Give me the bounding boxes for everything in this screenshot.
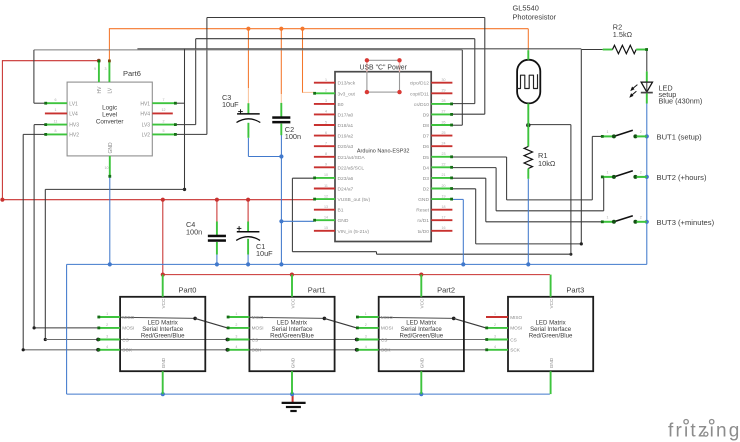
svg-text:1: 1: [494, 312, 496, 316]
svg-text:7: 7: [163, 98, 165, 102]
svg-text:1: 1: [607, 171, 609, 175]
svg-text:2: 2: [163, 119, 165, 123]
svg-text:MOSI: MOSI: [381, 326, 393, 331]
svg-text:VIN_in (5-21v): VIN_in (5-21v): [338, 229, 370, 235]
svg-text:29: 29: [442, 89, 446, 93]
svg-text:VCC: VCC: [549, 298, 554, 309]
svg-text:3: 3: [105, 67, 107, 71]
svg-text:4: 4: [235, 345, 237, 349]
svg-text:SCK: SCK: [122, 348, 133, 353]
svg-text:VUSB_out (5v): VUSB_out (5v): [338, 197, 371, 203]
svg-text:2: 2: [365, 323, 367, 327]
svg-text:21: 21: [442, 173, 446, 177]
svg-text:D22/a5/SCL: D22/a5/SCL: [338, 165, 365, 171]
svg-text:1: 1: [607, 130, 609, 134]
svg-text:1: 1: [55, 108, 57, 112]
svg-text:1: 1: [325, 78, 327, 82]
svg-text:1: 1: [607, 216, 609, 220]
svg-text:GL5540: GL5540: [513, 4, 539, 13]
svg-text:Arduino Nano-ESP32: Arduino Nano-ESP32: [357, 148, 410, 154]
svg-text:Part6: Part6: [123, 69, 141, 78]
svg-text:2: 2: [640, 216, 642, 220]
svg-text:2: 2: [235, 323, 237, 327]
svg-text:D6: D6: [423, 144, 430, 150]
svg-text:11: 11: [54, 119, 58, 123]
svg-text:D7: D7: [423, 134, 430, 140]
svg-text:3: 3: [235, 335, 237, 339]
svg-text:Blue (430nm): Blue (430nm): [659, 97, 703, 106]
svg-text:BUT2 (+hours): BUT2 (+hours): [657, 173, 707, 182]
svg-text:8: 8: [55, 129, 57, 133]
svg-text:2: 2: [640, 171, 642, 175]
svg-text:BUT1 (setup): BUT1 (setup): [657, 133, 703, 142]
svg-text:CS: CS: [122, 337, 129, 342]
svg-text:B1: B1: [338, 208, 344, 214]
svg-text:SCK: SCK: [252, 348, 263, 353]
svg-text:GND: GND: [161, 357, 166, 368]
svg-text:MISO: MISO: [122, 315, 134, 320]
svg-text:10: 10: [105, 166, 109, 170]
svg-text:D9: D9: [423, 112, 430, 118]
svg-text:20: 20: [442, 184, 446, 188]
svg-text:D24/a7: D24/a7: [338, 187, 354, 193]
svg-text:cs/D10: cs/D10: [414, 102, 430, 108]
svg-text:GND: GND: [418, 197, 429, 203]
svg-text:D17/a0: D17/a0: [338, 112, 354, 118]
svg-text:1: 1: [365, 312, 367, 316]
svg-text:100n: 100n: [285, 132, 301, 141]
svg-text:MISO: MISO: [510, 315, 522, 320]
svg-text:HV: HV: [97, 86, 103, 94]
svg-text:MOSI: MOSI: [252, 326, 264, 331]
svg-text:7: 7: [325, 142, 327, 146]
svg-text:24: 24: [442, 142, 446, 146]
svg-text:1: 1: [106, 312, 108, 316]
svg-text:SCK: SCK: [510, 348, 521, 353]
svg-text:19: 19: [442, 194, 446, 198]
svg-text:3: 3: [325, 99, 327, 103]
svg-text:4: 4: [365, 345, 367, 349]
svg-text:5: 5: [163, 129, 165, 133]
svg-text:HV2: HV2: [69, 133, 79, 139]
svg-text:25: 25: [442, 131, 446, 135]
svg-text:3v3_out: 3v3_out: [338, 91, 356, 97]
svg-text:Red/Green/Blue: Red/Green/Blue: [270, 333, 314, 340]
svg-text:Red/Green/Blue: Red/Green/Blue: [529, 333, 573, 340]
svg-text:Reset: Reset: [416, 208, 429, 214]
svg-text:10uF: 10uF: [256, 249, 273, 258]
svg-text:Part0: Part0: [179, 286, 197, 295]
svg-text:GND: GND: [338, 218, 349, 224]
svg-text:D19/a2: D19/a2: [338, 134, 354, 140]
svg-text:Photoresistor: Photoresistor: [513, 13, 557, 22]
svg-text:100n: 100n: [186, 227, 202, 236]
svg-text:Part2: Part2: [437, 286, 455, 295]
svg-text:22: 22: [442, 163, 446, 167]
svg-text:Part1: Part1: [308, 286, 326, 295]
svg-text:8: 8: [325, 152, 327, 156]
svg-text:D3: D3: [423, 176, 430, 182]
svg-text:MOSI: MOSI: [510, 326, 522, 331]
svg-text:Part3: Part3: [566, 286, 584, 295]
svg-text:SCK: SCK: [381, 348, 392, 353]
svg-text:1.5kΩ: 1.5kΩ: [613, 30, 633, 39]
svg-text:MISO: MISO: [252, 315, 264, 320]
svg-text:D23/a6: D23/a6: [338, 176, 354, 182]
svg-text:5: 5: [325, 120, 327, 124]
svg-text:USB "C" Power: USB "C" Power: [359, 64, 407, 71]
svg-text:CS: CS: [252, 337, 259, 342]
svg-text:14: 14: [324, 216, 328, 220]
svg-text:GND: GND: [290, 357, 295, 368]
svg-text:1: 1: [235, 312, 237, 316]
svg-text:2: 2: [325, 89, 327, 93]
svg-text:fritzing: fritzing: [668, 421, 740, 442]
svg-text:2: 2: [106, 323, 108, 327]
svg-text:2: 2: [494, 323, 496, 327]
svg-text:D8: D8: [423, 123, 430, 129]
svg-text:4: 4: [494, 345, 496, 349]
svg-text:D21/a4/SDA: D21/a4/SDA: [338, 155, 366, 161]
svg-text:18: 18: [442, 205, 446, 209]
svg-text:10: 10: [324, 173, 328, 177]
svg-text:GND: GND: [549, 357, 554, 368]
svg-text:6: 6: [55, 98, 57, 102]
svg-text:10uF: 10uF: [222, 100, 239, 109]
svg-text:30: 30: [442, 78, 446, 82]
svg-text:12: 12: [324, 194, 328, 198]
svg-text:Red/Green/Blue: Red/Green/Blue: [399, 333, 443, 340]
svg-text:27: 27: [442, 110, 446, 114]
svg-text:Red/Green/Blue: Red/Green/Blue: [141, 333, 185, 340]
svg-text:9: 9: [94, 67, 96, 71]
svg-text:LV3: LV3: [142, 123, 151, 129]
svg-text:Converter: Converter: [96, 119, 124, 126]
svg-text:HV3: HV3: [69, 123, 79, 129]
svg-text:VCC: VCC: [161, 298, 166, 309]
svg-text:D5: D5: [423, 155, 430, 161]
svg-text:LV: LV: [107, 87, 113, 93]
svg-text:4: 4: [325, 110, 327, 114]
svg-text:12: 12: [162, 108, 166, 112]
svg-text:28: 28: [442, 99, 446, 103]
svg-text:cipo/D12: cipo/D12: [410, 81, 430, 87]
svg-text:9: 9: [325, 163, 327, 167]
svg-text:17: 17: [442, 216, 446, 220]
svg-text:CS: CS: [510, 337, 517, 342]
svg-text:6: 6: [325, 131, 327, 135]
svg-text:GND: GND: [420, 357, 425, 368]
svg-text:CS: CS: [381, 337, 388, 342]
svg-text:3: 3: [106, 335, 108, 339]
svg-text:copi/D11: copi/D11: [410, 91, 429, 97]
svg-text:VCC: VCC: [420, 298, 425, 309]
svg-text:D18/a1: D18/a1: [338, 123, 354, 129]
svg-text:rx/D1: rx/D1: [417, 218, 429, 224]
svg-text:3: 3: [494, 335, 496, 339]
svg-text:D4: D4: [423, 165, 430, 171]
svg-text:LV4: LV4: [69, 112, 78, 118]
svg-text:2: 2: [640, 130, 642, 134]
svg-text:11: 11: [324, 184, 328, 188]
svg-text:3: 3: [365, 335, 367, 339]
svg-text:VCC: VCC: [290, 298, 295, 309]
svg-text:D20/a3: D20/a3: [338, 144, 354, 150]
svg-text:26: 26: [442, 120, 446, 124]
svg-text:D2: D2: [423, 187, 430, 193]
svg-text:HV1: HV1: [140, 101, 150, 107]
svg-text:D13/sck: D13/sck: [338, 81, 356, 87]
svg-text:16: 16: [442, 226, 446, 230]
svg-text:GND: GND: [108, 142, 114, 154]
svg-text:13: 13: [324, 205, 328, 209]
svg-text:4: 4: [106, 345, 108, 349]
svg-text:MOSI: MOSI: [122, 326, 134, 331]
svg-text:LV2: LV2: [142, 133, 151, 139]
svg-text:BUT3 (+minutes): BUT3 (+minutes): [657, 218, 715, 227]
svg-text:LV1: LV1: [69, 101, 78, 107]
svg-text:MISO: MISO: [381, 315, 393, 320]
svg-text:10kΩ: 10kΩ: [538, 159, 556, 168]
svg-text:tx/D0: tx/D0: [418, 229, 430, 235]
svg-text:B0: B0: [338, 102, 344, 108]
svg-text:15: 15: [324, 226, 328, 230]
svg-text:23: 23: [442, 152, 446, 156]
svg-text:HV4: HV4: [140, 112, 150, 118]
